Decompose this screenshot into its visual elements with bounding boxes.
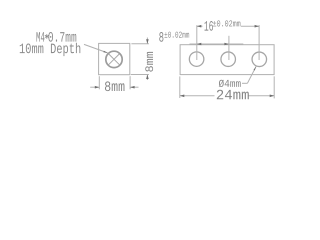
dimension 8mm below square: right tail	[130, 86, 138, 88]
note text 10mm Depth	[20, 43, 81, 56]
dimension 8mm below square: left arrow	[95, 86, 100, 89]
leader diagonal to circle 3	[247, 66, 256, 83]
dimension 8mm pitch: left arrow	[197, 43, 202, 46]
note text M4*0.7mm	[36, 32, 76, 42]
dimension 8mm pitch: dim line from text to beyond circle 2	[190, 43, 244, 45]
dimension 8mm right of square: bottom arrow	[146, 75, 149, 80]
dimension 8mm below square: right arrow	[130, 86, 135, 89]
hole circle 2	[221, 52, 236, 66]
leader arrow at tapped hole	[103, 51, 107, 53]
tolerance text +-0.02mm for 16	[213, 20, 240, 26]
leader landing for O4mm	[242, 82, 247, 84]
tapped hole circle M4	[106, 51, 122, 67]
rectangle body (right view, 24mm x 8mm)	[180, 45, 274, 75]
dimension text 16	[204, 21, 213, 31]
thread cross line NE-SW	[109, 54, 120, 65]
dimension 16mm: right segment	[241, 25, 259, 27]
square body (left view, 8mm x 8mm)	[99, 43, 130, 74]
leader text O4mm	[219, 80, 241, 87]
thread cross line NW-SE	[109, 54, 120, 65]
dimension 16mm: extension line at circle 1 center	[196, 25, 198, 60]
dimension 8mm right of square: top arrow	[146, 39, 149, 44]
dimension 8mm below square: extension line right	[129, 76, 131, 89]
dimension 16mm: extension line at circle 3 center	[258, 25, 260, 60]
dimension 16mm: right arrow	[255, 25, 260, 28]
dimension text 8	[159, 32, 163, 42]
dimension 24mm: right segment	[248, 95, 274, 97]
dimension 24mm: extension line right	[273, 76, 275, 98]
dimension 24mm: left segment	[180, 95, 215, 97]
dimension 24mm: extension line left	[179, 76, 181, 98]
leader arrow at circle 3	[254, 66, 257, 70]
dimension 16mm: left arrow	[197, 25, 202, 28]
dimension 16mm: left segment	[197, 25, 203, 27]
dimension 8mm below square: extension line left	[98, 76, 100, 89]
dimension 24mm: right arrow	[270, 95, 275, 98]
leader line to tapped hole	[84, 44, 108, 53]
dimension text 24mm	[217, 90, 249, 100]
dimension 8mm right of square: top stub	[146, 38, 148, 44]
hole circle 1	[189, 52, 204, 67]
dimension text 8mm below square	[105, 81, 125, 91]
dimension 8mm pitch: extension line at circle 2 center	[228, 36, 230, 60]
dimension 8mm right of square: extension line top	[131, 43, 149, 45]
hole circle 3	[252, 52, 267, 67]
dimension 8mm pitch: right arrow	[224, 43, 229, 46]
dimension 8mm below square: left tail	[90, 86, 99, 88]
tolerance text +-0.02mm for 8	[164, 32, 189, 38]
dimension 24mm: left arrow	[180, 95, 185, 98]
dimension 8mm right of square: extension line bottom	[131, 74, 149, 76]
dimension text 8mm right of square (rotated)	[145, 52, 153, 72]
dimension 8mm right of square: bottom stub	[146, 75, 148, 81]
